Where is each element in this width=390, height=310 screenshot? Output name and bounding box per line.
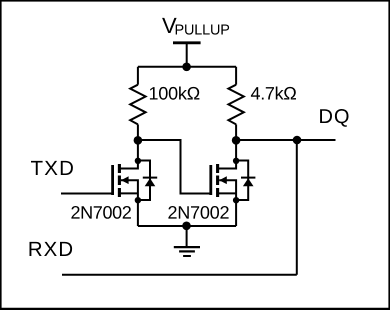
wire top rail xyxy=(138,66,236,68)
node pullup junction xyxy=(182,63,191,72)
node Q1 2N7002 left drain-diode tee xyxy=(135,158,141,164)
node ground junction xyxy=(182,222,191,231)
resistor R2 4.7k xyxy=(228,67,243,140)
wire bottom rail xyxy=(138,225,236,227)
transistor Q1 2N7002 left xyxy=(113,140,138,226)
diode Q2 2N7002 right body diode xyxy=(236,161,255,201)
node Q2 2N7002 right drain-diode tee xyxy=(233,158,239,164)
resistor R1 100k xyxy=(130,67,145,140)
node DQ junction xyxy=(293,136,302,145)
ground xyxy=(174,226,200,256)
border bottom edge xyxy=(0,308,390,310)
node Q1 2N7002 left source junction xyxy=(135,197,141,203)
power symbol VPULLUP bar xyxy=(173,43,201,67)
node Q2 2N7002 right source junction xyxy=(233,197,239,203)
transistor Q2 2N7002 right xyxy=(211,140,236,226)
wire RXD horizontal xyxy=(62,274,297,276)
wire TXD xyxy=(61,193,113,195)
label VPULLUP xyxy=(162,18,229,35)
label DQ xyxy=(320,109,348,127)
wire cross coupling left drain to right gate xyxy=(138,140,210,194)
label 2N7002 left xyxy=(71,206,130,219)
diode Q1 2N7002 left body diode xyxy=(138,161,157,201)
label TXD xyxy=(31,161,73,175)
value label 100k xyxy=(150,87,200,100)
label 2N7002 right xyxy=(168,206,228,219)
label RXD xyxy=(30,242,73,256)
node right drain junction xyxy=(232,136,241,145)
value label 4.7k xyxy=(251,87,296,100)
wire RXD riser xyxy=(296,140,298,275)
wire DQ xyxy=(236,139,335,141)
node left drain junction xyxy=(134,136,143,145)
